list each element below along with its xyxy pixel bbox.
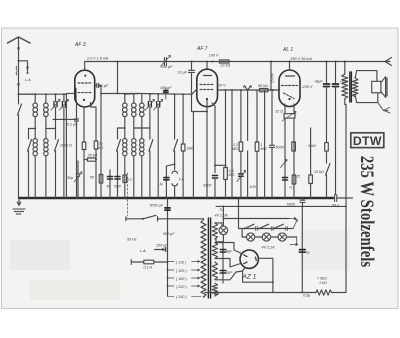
resistor 1M <box>255 90 259 198</box>
coil L4c <box>140 128 144 198</box>
resistor 1M b <box>181 94 185 198</box>
cap 100pF low <box>239 174 243 176</box>
AF7 right grid line <box>218 89 280 91</box>
switch S2b <box>149 128 153 198</box>
cap 5000 b <box>115 177 120 180</box>
resistor 1k zigzag <box>316 290 346 295</box>
svg-text:13 kΩ: 13 kΩ <box>314 170 324 174</box>
coil L3b <box>132 94 137 128</box>
resistor 1000ohm <box>82 142 86 160</box>
band2 top line <box>138 93 185 96</box>
svg-text:( 240 ): ( 240 ) <box>176 295 187 299</box>
mains fuse <box>131 260 167 265</box>
dashed link <box>127 173 129 216</box>
coil L3a <box>123 93 139 128</box>
switch S3 <box>326 164 331 199</box>
wire x232 <box>231 90 233 198</box>
svg-text:235 W Stolzenfels: 235 W Stolzenfels <box>356 156 377 267</box>
node <box>18 93 20 95</box>
svg-text:25 kΩ: 25 kΩ <box>87 154 98 158</box>
coil L2a <box>33 129 37 199</box>
svg-text:25: 25 <box>296 175 301 179</box>
AF3 bottom wires <box>77 101 97 142</box>
cap 10uF <box>189 62 208 199</box>
svg-text:22 kΩ: 22 kΩ <box>220 64 231 68</box>
T1 secondary 1 <box>212 223 222 239</box>
TA jack <box>172 164 178 198</box>
svg-text:5μ: 5μ <box>306 251 310 255</box>
wire grid AF7 <box>185 89 197 94</box>
cap 5000 <box>212 176 217 179</box>
svg-text:AZ 1: AZ 1 <box>242 274 257 281</box>
cap 50u bus end <box>335 195 353 202</box>
svg-text:50 Hz: 50 Hz <box>127 238 137 242</box>
output transformer T2 <box>342 61 358 105</box>
node antenna junction <box>18 60 20 62</box>
cap 0,1uF <box>75 119 79 198</box>
svg-text:4V 2,2A: 4V 2,2A <box>215 214 229 218</box>
wire trimmer link <box>53 118 77 120</box>
trimmer C3 <box>145 94 154 128</box>
wire antenna down <box>18 61 20 94</box>
svg-text:0,1: 0,1 <box>127 178 132 182</box>
ground bus <box>19 197 333 199</box>
tube AF7 <box>197 69 218 107</box>
wire AZ1 out down <box>272 282 274 292</box>
svg-text:50 kΩ: 50 kΩ <box>258 84 268 88</box>
link <box>215 164 226 166</box>
svg-text:2,0 V 1,8 mA: 2,0 V 1,8 mA <box>86 57 109 61</box>
svg-text:1000 Ω: 1000 Ω <box>60 144 72 148</box>
svg-text:AF 7: AF 7 <box>196 46 208 52</box>
dial lamp L0 <box>216 206 228 241</box>
electrolytic 4uF <box>324 61 330 143</box>
svg-text:7V: 7V <box>219 208 224 212</box>
svg-text:DTW: DTW <box>353 134 382 148</box>
T1 secondary 4 <box>212 283 218 296</box>
coil L2b <box>44 129 48 199</box>
wire trimmer downs <box>56 112 64 198</box>
svg-text:1MΩ: 1MΩ <box>187 147 194 151</box>
coil L4a <box>123 128 127 198</box>
svg-text:+8μF: +8μF <box>314 80 323 84</box>
trimmer C4 <box>154 94 163 198</box>
svg-text:L.A: L.A <box>25 78 31 82</box>
coil L1b <box>44 94 49 128</box>
svg-text:5000 μF: 5000 μF <box>149 204 163 208</box>
switch S2a <box>117 128 121 198</box>
resistor 13k <box>309 128 313 198</box>
paper speckle <box>10 230 350 300</box>
resistor AL1 low <box>292 175 296 184</box>
svg-text:AF 3: AF 3 <box>74 42 86 48</box>
svg-text:50: 50 <box>106 185 110 189</box>
svg-text:+8μF: +8μF <box>340 80 349 84</box>
svg-text:4V 2,2A: 4V 2,2A <box>262 246 276 250</box>
switch blades <box>245 224 284 228</box>
band1 top line <box>19 93 67 95</box>
lamp L2 <box>262 233 270 241</box>
cap LA link <box>155 248 168 252</box>
dial lamps row <box>242 220 298 246</box>
trimmer 30pF <box>74 161 82 198</box>
svg-text:-230 V: -230 V <box>302 85 313 89</box>
wire AF3 anode net <box>101 86 138 199</box>
resistor 50k <box>260 88 269 91</box>
wire rail drop x117 <box>117 62 119 94</box>
svg-text:290 V 36 mA: 290 V 36 mA <box>290 57 313 61</box>
svg-text:( 150 ): ( 150 ) <box>176 277 187 281</box>
pot arrow <box>237 171 246 182</box>
svg-text:1 kΩ: 1 kΩ <box>319 281 327 285</box>
cap 1uF branch <box>166 164 174 198</box>
lamp L0 wire to T1 <box>221 223 223 226</box>
svg-text:7 5kΩ: 7 5kΩ <box>317 277 327 281</box>
trimmer C2 <box>59 94 68 112</box>
svg-text:100 V: 100 V <box>209 54 219 58</box>
svg-text:MΩ: MΩ <box>229 173 235 177</box>
arrows right <box>293 220 297 229</box>
wire to band switch <box>19 93 37 95</box>
wire Y down <box>247 151 249 198</box>
cap 5000 a <box>107 170 112 198</box>
wire x264 <box>264 90 266 198</box>
T1 primary <box>201 220 206 298</box>
voltage selector line <box>167 262 169 296</box>
T1 secondary 3 <box>212 262 218 280</box>
lamp L1 <box>247 233 255 241</box>
svg-text:kΩ: kΩ <box>99 146 104 150</box>
svg-text:10 V: 10 V <box>218 84 226 88</box>
svg-text:50 μ: 50 μ <box>332 204 339 208</box>
svg-text:( 125 ): ( 125 ) <box>176 269 187 273</box>
resistor 25kohm <box>84 158 97 198</box>
band2 mid links <box>118 127 150 129</box>
svg-text:( 220 ): ( 220 ) <box>176 285 187 289</box>
resistor 150 <box>292 142 296 151</box>
wire right vertical <box>345 105 346 293</box>
svg-text:150 μF: 150 μF <box>156 244 168 248</box>
cap 100pF <box>164 88 168 99</box>
resistor 22k <box>212 60 230 63</box>
svg-text:500 μF: 500 μF <box>163 232 175 236</box>
electrolytic 8uF <box>333 61 339 195</box>
taps <box>168 261 202 297</box>
svg-text:MΩ: MΩ <box>261 147 267 151</box>
DTW logo <box>351 133 384 148</box>
coil L3c <box>140 94 145 128</box>
trimmer C1 <box>51 94 60 112</box>
mains bold line <box>167 198 169 262</box>
svg-text:( 110 ): ( 110 ) <box>176 260 186 264</box>
cap 0,1u box <box>123 175 127 183</box>
svg-text:100: 100 <box>250 185 257 189</box>
svg-text:0,1: 0,1 <box>290 186 295 190</box>
speaker LS <box>355 71 390 113</box>
resistor 5k <box>325 143 329 163</box>
cap x272 <box>270 90 275 198</box>
svg-text:5000: 5000 <box>203 184 212 188</box>
svg-text:0,1 A: 0,1 A <box>144 266 153 270</box>
crow foot right <box>385 58 392 66</box>
switch S1a <box>18 94 22 198</box>
cap 4uF AL1 <box>283 178 288 181</box>
AF7 bottom wires <box>212 103 215 173</box>
svg-text:8μF: 8μF <box>226 250 233 254</box>
resistor 70kohm <box>94 141 98 198</box>
coil L1a <box>33 94 38 128</box>
svg-text:L.A.: L.A. <box>140 249 147 253</box>
svg-text:8μF: 8μF <box>226 271 233 275</box>
svg-text:32 Ω: 32 Ω <box>275 110 283 114</box>
svg-text:100 pF: 100 pF <box>160 86 172 90</box>
rectifier AZ1 <box>240 250 258 268</box>
AZ1 filament loop <box>243 258 273 282</box>
resistor 32ohm <box>282 104 296 198</box>
svg-text:5000: 5000 <box>114 185 121 189</box>
cap 5000 bus <box>300 198 305 206</box>
tube AF3 <box>75 70 95 107</box>
cap 60pF <box>96 84 102 88</box>
pot arrow AL1 <box>281 160 288 168</box>
bottom HT line <box>205 292 316 294</box>
wire AL1 top <box>289 62 291 71</box>
wire HT return <box>216 205 346 207</box>
switch S1c <box>55 129 59 199</box>
svg-text:0,5μ: 0,5μ <box>303 294 310 298</box>
resistor 0,3M <box>224 90 228 198</box>
band1 mid links <box>29 128 56 130</box>
svg-text:AL 1: AL 1 <box>282 47 293 53</box>
cap 5000 mains <box>165 208 170 210</box>
wire AF7 top <box>206 62 208 70</box>
svg-text:0,1 μF: 0,1 μF <box>67 123 78 127</box>
svg-text:25 mA: 25 mA <box>271 73 275 84</box>
power transformer T1 core <box>208 218 210 298</box>
AZ1 anode wires <box>218 243 242 254</box>
smoothing caps 8uF <box>218 243 226 284</box>
switch S1b <box>28 129 32 199</box>
switch S2c <box>174 94 178 164</box>
svg-text:30p: 30p <box>67 176 73 180</box>
trimmer 150pF on rail <box>160 56 170 67</box>
coil L4b <box>132 128 136 198</box>
resistor 50 <box>99 175 103 184</box>
wire AF3 grid <box>66 93 75 198</box>
svg-text:T.A.: T.A. <box>178 177 184 181</box>
antenna <box>8 37 31 61</box>
right low column <box>299 206 305 292</box>
svg-text:5000: 5000 <box>276 146 285 150</box>
anode supply rail <box>85 62 385 71</box>
svg-text:150 pF: 150 pF <box>161 65 173 69</box>
heater line <box>239 198 243 229</box>
svg-text:60 pF: 60 pF <box>99 84 109 88</box>
wire LA branch <box>19 61 28 72</box>
svg-text:10 μF: 10 μF <box>178 71 188 75</box>
svg-text:1μ: 1μ <box>159 182 163 186</box>
svg-text:5 kΩ: 5 kΩ <box>308 144 316 148</box>
heater right arrow <box>289 218 296 220</box>
svg-text:5000: 5000 <box>287 203 296 207</box>
mains switch <box>126 215 203 221</box>
tube AL1 <box>279 70 300 107</box>
resistor 1,2M <box>239 89 243 173</box>
wire screen feed <box>270 62 272 91</box>
lamp L3 <box>278 233 286 241</box>
T1 secondary 2 HT <box>212 243 218 259</box>
svg-text:MΩ: MΩ <box>232 147 238 151</box>
ground <box>13 198 25 214</box>
trimmer Y <box>244 86 252 141</box>
